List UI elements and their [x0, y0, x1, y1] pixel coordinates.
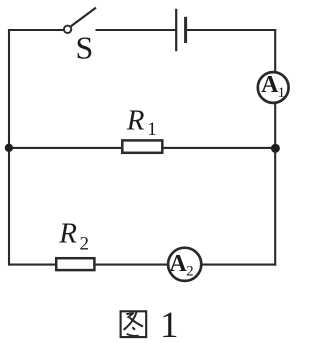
svg-text:1: 1	[278, 85, 286, 101]
svg-text:A: A	[261, 72, 279, 98]
svg-text:A: A	[169, 251, 187, 277]
svg-text:R: R	[126, 105, 145, 137]
svg-text:S: S	[76, 30, 94, 66]
svg-text:2: 2	[186, 264, 194, 280]
svg-text:2: 2	[80, 233, 90, 254]
svg-text:R: R	[58, 218, 77, 250]
svg-text:1: 1	[160, 305, 179, 343]
svg-text:1: 1	[147, 119, 157, 140]
